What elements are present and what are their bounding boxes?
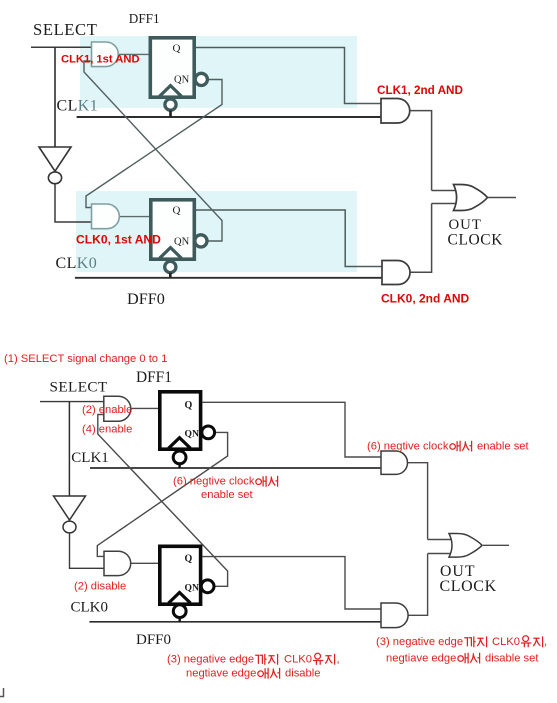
svg-text:DFF1: DFF1 [129, 11, 160, 26]
svg-text:disable set: disable set [485, 652, 539, 664]
svg-text:CLK1: CLK1 [71, 450, 109, 466]
svg-text:CLK1, 2nd AND: CLK1, 2nd AND [377, 84, 463, 97]
svg-text:SELECT: SELECT [33, 20, 97, 39]
svg-text:negtiave edge: negtiave edge [186, 668, 256, 680]
svg-text:enable set: enable set [477, 440, 530, 452]
svg-text:disable: disable [285, 668, 320, 680]
svg-text:Q: Q [173, 43, 181, 55]
svg-text:QN: QN [174, 75, 190, 86]
svg-text:DFF1: DFF1 [136, 369, 172, 386]
svg-text:CLK0: CLK0 [284, 654, 312, 666]
svg-text:CLOCK: CLOCK [440, 578, 497, 595]
svg-text:CLK0, 2nd AND: CLK0, 2nd AND [381, 292, 470, 306]
svg-text:negtiave edge: negtiave edge [386, 652, 456, 664]
svg-text:(3) negative edge: (3) negative edge [376, 636, 463, 648]
svg-text:(6) negtive clock: (6) negtive clock [173, 476, 255, 488]
svg-text:(1) SELECT signal change 0 to: (1) SELECT signal change 0 to 1 [4, 353, 167, 365]
svg-text:QN: QN [185, 583, 199, 594]
svg-text:QN: QN [174, 237, 190, 248]
svg-text:(3) negative edge: (3) negative edge [167, 654, 254, 666]
svg-text:DFF0: DFF0 [127, 290, 165, 308]
svg-text:CLK0, 1st AND: CLK0, 1st AND [76, 233, 161, 247]
svg-text:CLK1, 1st AND: CLK1, 1st AND [61, 54, 140, 66]
svg-text:DFF0: DFF0 [136, 632, 171, 648]
svg-text:CLK1: CLK1 [57, 98, 99, 115]
svg-text:(2) disable: (2) disable [74, 581, 126, 593]
svg-text:Q: Q [185, 400, 193, 411]
svg-text:CLK0: CLK0 [56, 255, 98, 272]
svg-text:(4) enable: (4) enable [82, 423, 132, 435]
svg-text:enable set: enable set [201, 489, 254, 501]
svg-text:CLOCK: CLOCK [448, 232, 504, 249]
svg-text:,: , [544, 636, 547, 648]
svg-text:SELECT: SELECT [50, 378, 108, 395]
svg-text:CLK0: CLK0 [71, 599, 109, 615]
svg-text:Q: Q [185, 554, 193, 565]
svg-text:CLK0: CLK0 [492, 636, 520, 648]
svg-text:QN: QN [185, 429, 199, 440]
svg-text:,: , [337, 654, 340, 666]
svg-text:Q: Q [173, 205, 181, 217]
svg-text:(2) enable: (2) enable [82, 404, 132, 416]
svg-text:(6) negtive clock: (6) negtive clock [367, 440, 449, 452]
